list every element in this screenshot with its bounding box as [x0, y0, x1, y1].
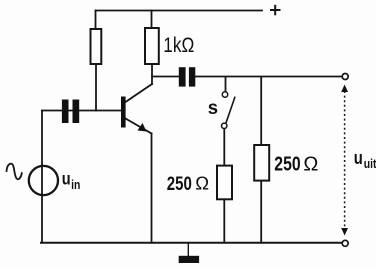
svg-text:1kΩ: 1kΩ	[163, 33, 194, 57]
svg-text:s: s	[208, 97, 218, 119]
svg-text:in: in	[71, 179, 80, 192]
svg-text:uit: uit	[364, 157, 376, 171]
svg-text:Ω: Ω	[303, 153, 318, 175]
svg-text:250: 250	[167, 173, 192, 194]
svg-text:250: 250	[274, 153, 300, 175]
svg-text:u: u	[62, 169, 71, 189]
svg-text:u: u	[354, 148, 363, 169]
svg-text:Ω: Ω	[195, 172, 209, 193]
